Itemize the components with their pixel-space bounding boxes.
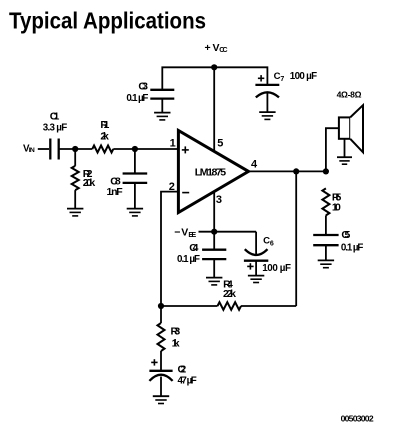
svg-text:R3: R3 [171,326,181,338]
svg-text:CC: CC [219,47,227,54]
resistor R5 [322,188,341,235]
svg-text:2k: 2k [100,130,109,142]
wire pin 5 to VCC [213,67,215,152]
capacitor C7 [255,71,317,98]
capacitor C4 [177,232,226,278]
wire to speaker [326,128,339,171]
power +VCC [205,42,228,54]
node VIN [23,144,35,155]
svg-text:3: 3 [216,194,222,206]
svg-text:5: 5 [217,138,223,150]
svg-text:C5: C5 [341,229,350,241]
ground under C3 [154,113,170,120]
svg-text:1nF: 1nF [107,186,124,198]
node VCC junction [211,64,217,70]
capacitor C8 [107,149,148,208]
ground under speaker [337,157,352,164]
node feedback tap [293,168,299,174]
speaker 4ohm-8ohm [337,90,363,153]
wire feedback horizontal right [241,305,296,307]
svg-text:100 µF: 100 µF [290,71,317,82]
capacitor C5 [313,229,363,260]
svg-text:00503002: 00503002 [341,413,374,423]
resistor R1 [92,119,113,153]
node VEE junction [211,229,217,235]
svg-text:22k: 22k [223,288,236,300]
svg-text:C3: C3 [138,81,148,93]
wire feedback horizontal left [161,305,218,307]
svg-text:Typical Applications: Typical Applications [9,8,206,34]
svg-text:C4: C4 [189,242,198,254]
node feedback R3 junction [158,303,164,309]
svg-text:4: 4 [251,158,258,170]
svg-text:+ V: + V [205,42,220,54]
op-amp U1 LM1875 [178,131,248,213]
wire C3 to ground [161,99,163,113]
node B (C8 tap) [132,146,138,152]
wire pin 3 to VEE [213,192,215,232]
resistor R2 [72,149,96,208]
capacitor C1 [43,110,67,159]
svg-text:R1: R1 [100,119,109,131]
svg-text:0.1 µF: 0.1 µF [341,242,364,253]
wire pin 2 feedback [161,192,178,306]
svg-text:3.3 µF: 3.3 µF [43,122,67,133]
wire C7 to ground [266,93,268,112]
wire speaker to ground [344,139,346,157]
ground under R2 [67,209,83,216]
svg-text:7: 7 [280,76,284,83]
ground under C4 [206,278,222,285]
svg-text:1k: 1k [172,337,180,349]
svg-text:EE: EE [188,232,196,239]
svg-text:20k: 20k [83,177,96,189]
resistor R3 [158,306,181,371]
svg-text:0.1 µF: 0.1 µF [177,254,200,265]
power -VEE [174,227,196,239]
svg-text:4Ω-8Ω: 4Ω-8Ω [337,90,362,100]
svg-text:− V: − V [174,227,188,239]
ground under C6 [248,276,264,283]
svg-text:100 µF: 100 µF [262,263,291,274]
ground under C5 [318,260,334,267]
capacitor C2 [149,359,196,396]
wire C1 to R1 [59,148,93,150]
capacitor C6 [244,235,291,275]
node A input junction [72,146,78,152]
svg-text:C1: C1 [50,110,60,122]
ground under C8 [127,209,143,216]
wire feedback vertical [295,171,297,306]
node output zobel/speaker [323,168,329,174]
svg-text:C2: C2 [178,363,187,375]
svg-text:6: 6 [270,241,274,248]
wire VCC rail [162,67,267,90]
wire output pin 4 [249,170,326,172]
ground under C2 [153,396,169,403]
svg-text:1: 1 [170,138,176,150]
wire VEE to C6 [255,232,257,254]
svg-text:LM1875: LM1875 [195,166,226,178]
wire R1 to pin 1 [113,148,178,150]
resistor R4 [218,278,242,310]
svg-text:0.1 µF: 0.1 µF [126,93,148,104]
wire VEE rail [199,231,257,233]
svg-text:IN: IN [29,147,35,154]
svg-text:47 µF: 47 µF [178,375,197,386]
ground under C7 [259,112,275,119]
capacitor C3 [126,81,174,104]
wire input [38,148,49,150]
svg-text:10: 10 [332,202,341,214]
